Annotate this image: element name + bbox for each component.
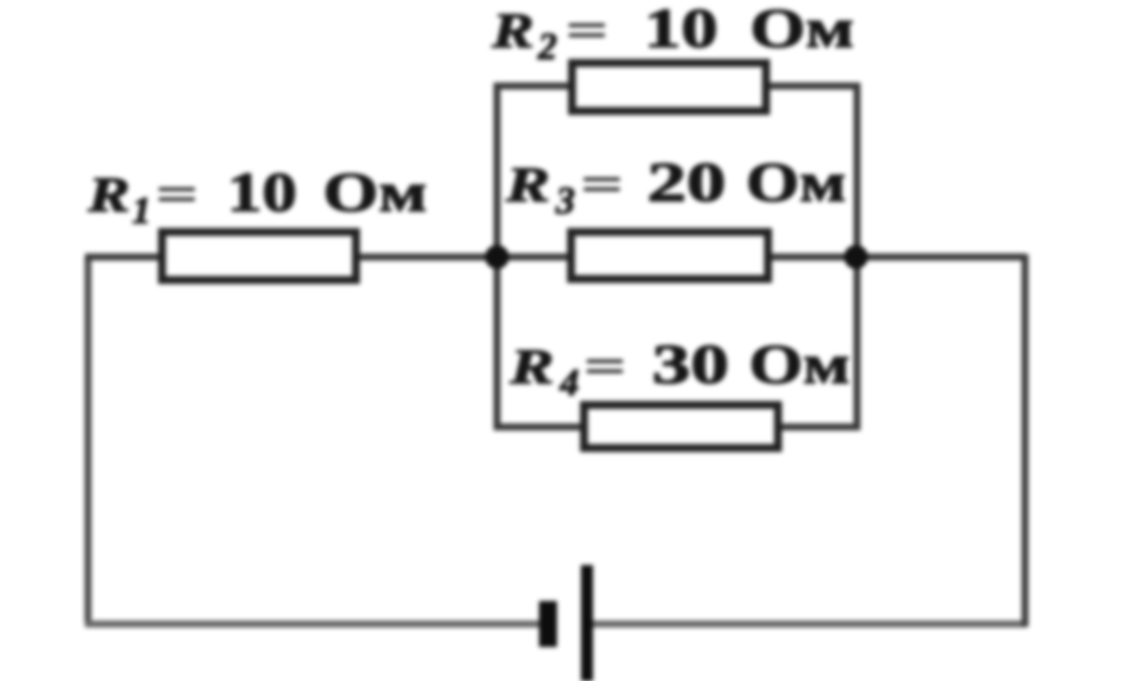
svg-text:2: 2 xyxy=(537,26,557,68)
wire: right vertical from main row down to bottom rail xyxy=(1022,254,1029,627)
svg-text:4: 4 xyxy=(559,362,579,404)
svg-text:Ом: Ом xyxy=(323,162,427,224)
wire: top parallel branch (left up, across, right down) xyxy=(497,86,857,257)
node A: junction dot left xyxy=(485,245,509,269)
svg-text:=: = xyxy=(565,2,609,58)
svg-text:=: = xyxy=(583,338,627,394)
resistor R1 (box) xyxy=(162,232,356,280)
resistor R3 (box) xyxy=(571,232,768,279)
label R2 value: R2 = 10 Om xyxy=(491,0,854,68)
wire: bottom rail left segment (to battery short plate) xyxy=(85,621,542,628)
battery: short thick negative plate xyxy=(539,601,557,647)
wire: bottom rail right segment (from battery long plate) xyxy=(588,621,1025,628)
svg-text:Ом: Ом xyxy=(746,152,846,214)
svg-text:R: R xyxy=(87,166,130,222)
svg-text:=: = xyxy=(155,166,199,222)
label R4 value: R4 = 30 Om xyxy=(509,334,850,404)
svg-text:R: R xyxy=(491,2,534,58)
svg-text:=: = xyxy=(580,156,624,212)
wire: left vertical from R1 row down to bottom rail xyxy=(85,257,92,624)
resistor R2 (box) xyxy=(572,63,766,111)
svg-text:1: 1 xyxy=(132,190,151,232)
svg-text:30: 30 xyxy=(652,334,729,396)
label R3 value: R3 = 20 Om xyxy=(505,152,846,222)
svg-text:10: 10 xyxy=(227,162,297,224)
wire: bottom parallel branch (left down, across, right up) xyxy=(497,257,857,427)
svg-text:20: 20 xyxy=(647,152,726,214)
svg-text:R: R xyxy=(509,338,554,394)
svg-text:Ом: Ом xyxy=(750,0,854,60)
svg-text:Ом: Ом xyxy=(749,334,850,396)
battery: long thin positive plate xyxy=(581,565,593,681)
label R1 value: R1 = 10 Om xyxy=(87,162,427,232)
svg-text:10: 10 xyxy=(644,0,718,60)
svg-text:3: 3 xyxy=(555,180,575,222)
node B: junction dot right xyxy=(844,245,868,269)
wire: main horizontal row y=257 xyxy=(85,254,1025,261)
resistor R4 (box) xyxy=(584,405,778,448)
svg-text:R: R xyxy=(505,156,550,212)
